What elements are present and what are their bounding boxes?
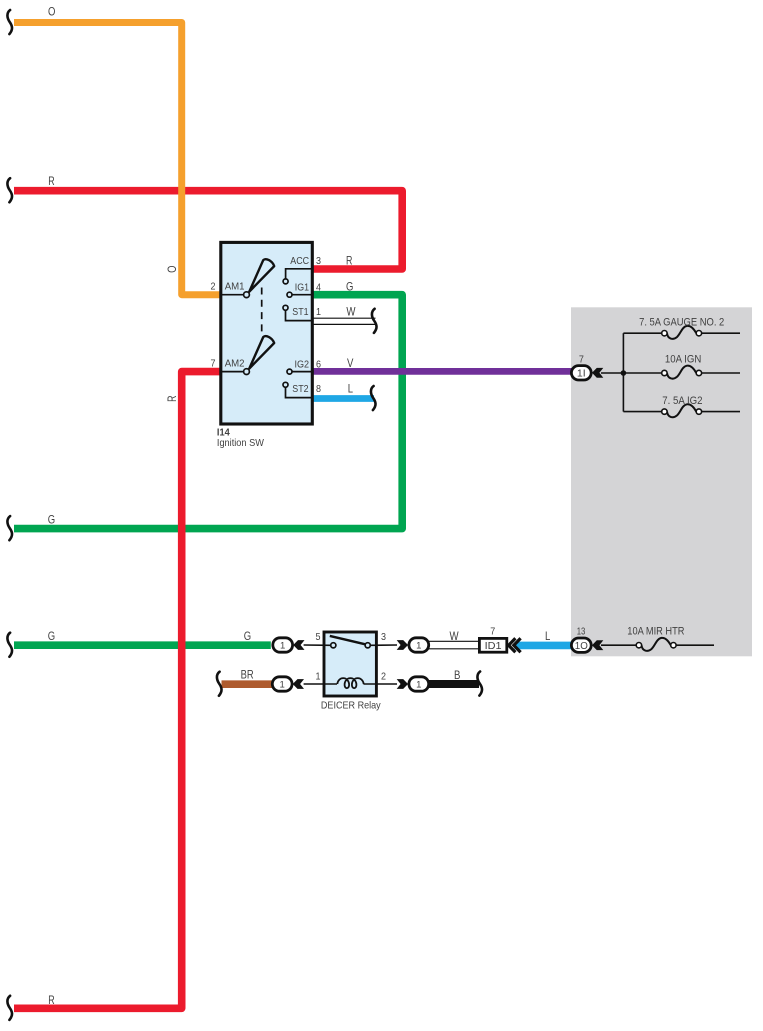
svg-text:DEICER Relay: DEICER Relay	[321, 700, 381, 712]
cut mark: G wire (y528)	[7, 516, 12, 540]
svg-text:BR: BR	[241, 669, 254, 682]
arrow into 1O	[592, 640, 603, 650]
svg-text:R: R	[48, 994, 54, 1007]
cut mark: G relay wire	[7, 633, 12, 657]
svg-text:2: 2	[381, 671, 386, 683]
svg-text:5: 5	[316, 631, 321, 643]
connector oval (BR wire, relay pin1)	[272, 677, 292, 691]
IG2 contact inside I14	[287, 359, 311, 374]
arrow into T1	[293, 640, 304, 650]
fuse 7.5A GAUGE NO.2 row	[623, 317, 740, 339]
svg-text:1: 1	[416, 680, 421, 691]
svg-text:1: 1	[416, 641, 421, 652]
svg-text:ST1: ST1	[292, 307, 309, 318]
DEICER relay block	[324, 632, 376, 696]
svg-text:O: O	[166, 266, 179, 273]
wire V: IG2 pin 6 to junction block 1I	[311, 368, 572, 375]
svg-text:7: 7	[579, 354, 584, 366]
wire W: relay pin 3 to ID1 (white wire, outline only)	[429, 641, 480, 649]
wire from arrow to fuse branch	[601, 372, 623, 374]
svg-text:G: G	[244, 630, 251, 643]
svg-text:W: W	[450, 630, 459, 643]
svg-text:6: 6	[316, 358, 321, 370]
svg-text:10A IGN: 10A IGN	[665, 354, 701, 366]
connector oval T1 (G wire, relay pin5)	[273, 638, 293, 652]
svg-text:3: 3	[316, 255, 321, 267]
svg-text:ID1: ID1	[485, 640, 502, 652]
relay switch contacts	[304, 636, 397, 648]
svg-text:O: O	[48, 5, 55, 18]
svg-text:7. 5A GAUGE NO. 2: 7. 5A GAUGE NO. 2	[639, 317, 724, 329]
svg-text:Ignition SW: Ignition SW	[217, 438, 265, 449]
AM1 pole + switch lever	[221, 259, 274, 297]
svg-text:L: L	[545, 630, 551, 643]
svg-text:B: B	[454, 669, 461, 682]
svg-text:R: R	[48, 175, 54, 188]
svg-text:4: 4	[316, 282, 321, 294]
svg-text:13: 13	[577, 626, 586, 638]
svg-text:IG1: IG1	[295, 283, 310, 294]
connector oval (relay pin2, B wire)	[409, 677, 429, 691]
ST2 contact inside I14	[283, 382, 311, 397]
double chevron at ID1	[509, 638, 521, 652]
svg-text:1: 1	[316, 306, 321, 318]
connector oval (relay pin3, W wire)	[409, 638, 429, 652]
svg-text:G: G	[346, 281, 353, 294]
svg-text:7: 7	[211, 357, 216, 369]
svg-text:1: 1	[280, 680, 285, 691]
wire L: ST2 pin 8	[311, 395, 374, 402]
svg-text:V: V	[347, 357, 354, 370]
fuse 10A IGN row	[623, 354, 740, 379]
svg-text:ST2: ST2	[292, 384, 309, 395]
svg-text:8: 8	[316, 383, 321, 395]
svg-text:10A MIR HTR: 10A MIR HTR	[627, 626, 684, 638]
svg-text:1O: 1O	[575, 641, 588, 652]
svg-text:W: W	[346, 305, 355, 318]
junction/fuse block (gray)	[571, 307, 752, 656]
fuse 7.5A IG2 row	[623, 395, 740, 417]
svg-text:2: 2	[211, 281, 216, 293]
junction block connector 1I (pin 7)	[571, 366, 591, 380]
svg-text:ACC: ACC	[290, 256, 309, 267]
svg-text:L: L	[348, 382, 354, 395]
svg-text:G: G	[48, 514, 55, 527]
junction node	[621, 370, 627, 376]
cut mark: W wire ST1	[372, 309, 377, 333]
svg-text:G: G	[48, 630, 55, 643]
wire W: ST1 pin 1 (white wire, outline only)	[311, 318, 376, 324]
arrow out of relay pin3	[397, 640, 408, 650]
cut mark: B wire	[477, 672, 482, 696]
IG1 contact inside I14	[287, 283, 311, 298]
cut mark: O wire	[7, 10, 12, 34]
wire R: AM2 pin 7 feed	[14, 372, 221, 1009]
svg-text:AM2: AM2	[225, 358, 245, 369]
cut mark: L wire ST2	[371, 386, 376, 410]
fuse 10A MIR HTR row	[601, 626, 714, 651]
connector ID1	[479, 626, 506, 653]
arrow into BR oval	[293, 679, 304, 689]
svg-text:7: 7	[490, 626, 495, 638]
svg-text:1: 1	[316, 671, 321, 683]
ignition switch I14 block	[221, 242, 312, 424]
svg-text:IG2: IG2	[295, 359, 310, 370]
wire O: feed to AM1 pin 2	[14, 23, 221, 295]
wire G: IG1 pin 4 output	[14, 295, 402, 529]
ST1 contact inside I14	[283, 305, 311, 320]
arrow out of relay pin2	[397, 679, 408, 689]
svg-text:1I: 1I	[577, 369, 586, 380]
wire BR: deicer relay coil feed	[222, 680, 273, 688]
AM2 pole + switch lever	[221, 336, 274, 374]
wire L: ID1 to junction block 1O	[515, 642, 572, 650]
wire R (top): battery feed to ACC pin 3	[14, 191, 402, 269]
arrow into 1I	[592, 368, 603, 378]
cut mark: R bottom wire	[7, 996, 12, 1020]
wire B: deicer relay coil ground	[429, 680, 480, 688]
wire G: deicer relay pin 5 feed	[14, 641, 271, 649]
junction block connector 1O (pin 13)	[571, 638, 591, 652]
svg-text:I14: I14	[217, 427, 230, 438]
ACC contact inside I14	[283, 256, 311, 284]
svg-text:1: 1	[280, 641, 285, 652]
fuse branch vertical	[622, 333, 624, 411]
svg-text:3: 3	[381, 631, 386, 643]
svg-text:R: R	[346, 255, 352, 268]
cut mark: R top wire	[7, 178, 12, 202]
svg-text:7. 5A IG2: 7. 5A IG2	[662, 395, 702, 407]
svg-text:R: R	[166, 396, 179, 402]
svg-text:AM1: AM1	[225, 282, 245, 293]
mechanical link (dashed)	[261, 288, 263, 337]
cut mark: BR wire	[217, 672, 222, 696]
relay coil	[304, 678, 397, 688]
